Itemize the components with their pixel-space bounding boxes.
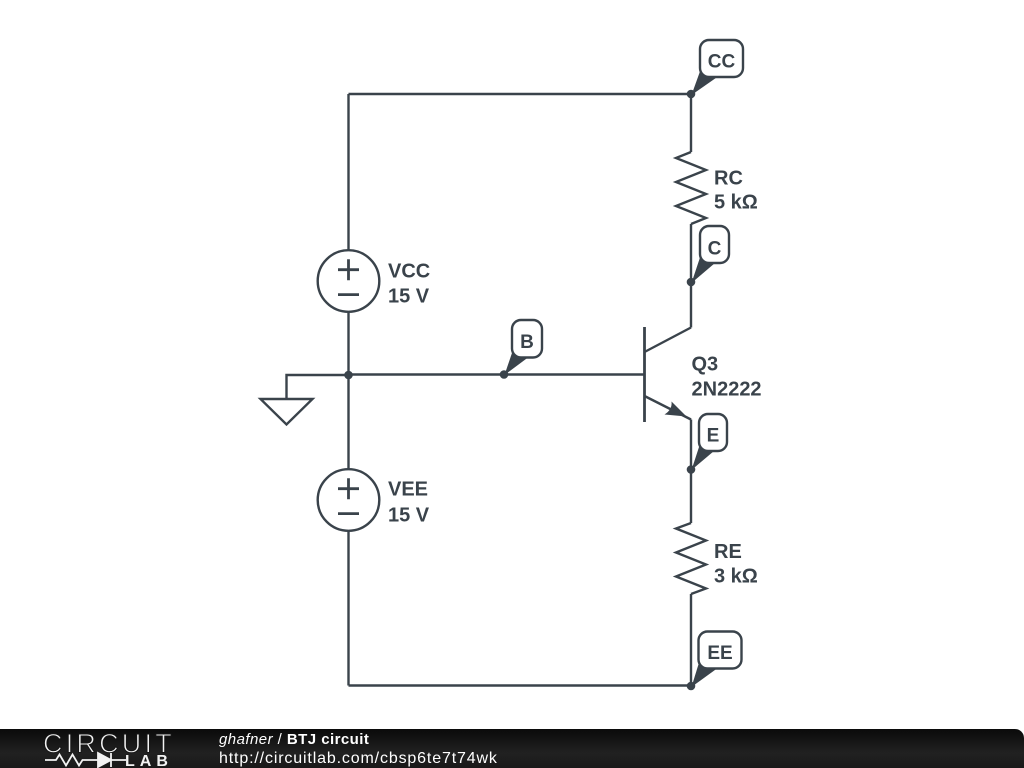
svg-text:2N2222: 2N2222 <box>692 379 762 401</box>
svg-text:5 kΩ: 5 kΩ <box>714 192 758 214</box>
junction dot at EE <box>687 682 696 691</box>
node flag B <box>505 320 543 375</box>
wire VEE to bottom rail <box>347 531 349 686</box>
svg-text:ghafner / BTJ circuit: ghafner / BTJ circuit <box>219 731 369 748</box>
svg-text:15 V: 15 V <box>388 505 430 527</box>
svg-text:VEE: VEE <box>388 479 428 501</box>
wire RC to collector <box>690 224 692 328</box>
svg-text:RE: RE <box>714 541 742 563</box>
ground GND <box>261 375 349 425</box>
svg-text:3 kΩ: 3 kΩ <box>714 566 758 588</box>
CircuitLab logo <box>43 729 175 768</box>
voltage source VEE <box>318 469 380 531</box>
value label RE 3 kOhm <box>714 541 758 588</box>
wire base <box>349 373 644 375</box>
transistor Q3 <box>645 327 692 422</box>
svg-text:CC: CC <box>708 52 736 73</box>
wire junction to VEE <box>347 375 349 470</box>
svg-text:LAB: LAB <box>125 753 173 768</box>
node flag CC <box>692 40 744 95</box>
svg-text:B: B <box>520 332 534 353</box>
value label VCC 15 V <box>388 261 430 308</box>
voltage source VCC <box>318 250 380 312</box>
junction dot at E <box>687 465 696 474</box>
svg-text:VCC: VCC <box>388 261 430 283</box>
value label RC 5 kOhm <box>714 167 758 213</box>
value label VEE 15 V <box>388 479 430 527</box>
node flag E <box>692 414 728 470</box>
wire VCC to ground junction <box>347 312 349 376</box>
node flag C <box>692 226 730 283</box>
wire CC to RC <box>690 94 692 152</box>
svg-text:C: C <box>708 239 722 260</box>
junction dot at CC <box>687 90 696 99</box>
wire RE to EE <box>690 594 692 686</box>
wire left rail to VCC <box>347 94 349 251</box>
wire emitter to RE <box>690 420 692 524</box>
resistor RE <box>676 523 706 594</box>
node flag EE <box>692 632 742 688</box>
svg-text:15 V: 15 V <box>388 286 430 308</box>
svg-text:EE: EE <box>707 643 732 664</box>
svg-text:RC: RC <box>714 167 743 189</box>
svg-text:Q3: Q3 <box>692 354 719 376</box>
wire top rail <box>349 93 692 95</box>
footer bar <box>0 729 1024 768</box>
resistor RC <box>676 152 706 224</box>
junction dot at ground <box>344 371 353 380</box>
junction dot at B <box>500 370 509 379</box>
wire bottom rail <box>349 684 692 686</box>
junction dot at C <box>687 278 696 287</box>
svg-text:E: E <box>707 426 720 447</box>
svg-text:http://circuitlab.com/cbsp6te7: http://circuitlab.com/cbsp6te7t74wk <box>219 750 498 767</box>
value label Q3 2N2222 <box>692 354 762 401</box>
